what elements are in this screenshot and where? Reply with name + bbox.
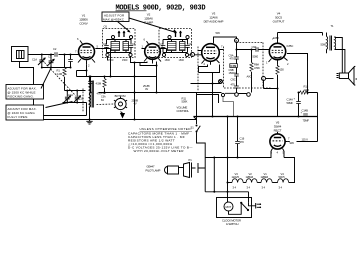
heater feed left [270,151,272,158]
wire antenna bottom down to bus [20,62,34,120]
svg-text:50MF: 50MF [287,101,294,105]
capacitor C16 line filter [237,117,239,158]
resistor R1 2.2M [63,68,66,77]
wire T1 to V2 grid [131,57,148,63]
V2 top pin stub [147,41,149,44]
V2 cathode wiring [135,62,157,120]
pilot lamp P1 [146,158,206,178]
oscillator trimmer feed line [65,90,86,92]
oscillator trimmer C1D [73,91,83,103]
filter resistor R13 [299,92,301,94]
main bus right [194,116,318,118]
socket bottom view [114,94,139,110]
V3 pin stubs [198,50,224,65]
svg-text:WITH 20,000Ω/-VOLT METER: WITH 20,000Ω/-VOLT METER [134,149,185,153]
svg-text:3 4: 3 4 [233,186,237,190]
svg-text:1500: 1500 [179,59,185,62]
tube label V2 [144,13,153,25]
socket ground key arrow [121,112,123,113]
svg-text:470K: 470K [254,66,260,70]
tube V2 [145,44,161,60]
svg-text:C14B: C14B [302,109,309,113]
svg-text:0.5M: 0.5M [231,64,237,68]
filament supply line [205,157,271,159]
oscillator coil T3 [89,81,93,120]
svg-text:C14A: C14A [287,98,294,102]
callout box: 1500KC [6,85,44,100]
svg-text:4.5M: 4.5M [96,82,102,86]
on-off switch S1 on volume [196,120,198,125]
svg-text:5000: 5000 [253,55,259,59]
svg-text:MOT: MOT [226,205,232,209]
svg-text:5000: 5000 [321,43,327,47]
heater V1 [261,179,272,183]
svg-text:105V: 105V [273,36,279,40]
gang link dashed [45,63,76,96]
tube V3 [202,44,220,62]
capacitor C4 input [68,60,73,62]
svg-text:2.2M: 2.2M [57,72,63,76]
riser [213,158,215,192]
svg-text:1500: 1500 [122,59,128,62]
IF transformer T1 can [103,29,136,63]
svg-text:C1A: C1A [32,58,37,62]
svg-text:150: 150 [280,68,285,72]
C14A [298,93,300,102]
svg-text:4V: 4V [134,102,137,106]
V3 cathode loop [199,65,220,73]
wire antenna to V1 grid [28,54,79,56]
wire V1 plate to T1 [100,49,110,77]
junction x134 at bus [134,119,136,121]
switch in box [240,202,249,211]
heater V3 [232,179,243,183]
svg-text:& SWITCH: & SWITCH [226,222,238,226]
svg-text:115 V: 115 V [302,138,309,142]
main bus left (B-) [34,119,197,121]
V5 plate wire to B+ [288,141,290,143]
volume control R11 [196,93,198,120]
output transformer T1 [321,24,345,73]
svg-text:50V: 50V [216,31,221,35]
svg-text:ROCKING GANG.: ROCKING GANG. [8,94,34,98]
svg-text:IF AMP: IF AMP [144,21,153,25]
detector column bottom ties [236,88,238,93]
svg-text:PILOT LAMP: PILOT LAMP [146,169,161,173]
heater feed right [284,151,295,183]
V4 screen to B+ [287,54,308,61]
svg-text:AVC: AVC [247,75,252,79]
loop antenna L1 [12,47,29,62]
AVC resistor column [247,50,261,93]
svg-text:4V: 4V [145,87,148,91]
vertical V3 to bus [212,73,214,117]
tube V5 [270,134,285,149]
lower distribution line [205,191,248,193]
callout box: 1620KC [6,105,44,120]
detector dashed shield [198,43,271,91]
speaker LS1 [337,66,358,85]
leader arrow to T1 slug [118,22,130,32]
svg-text:12BA6: 12BA6 [246,175,254,179]
svg-text:90V: 90V [290,141,295,145]
svg-text:OUTPUT: OUTPUT [273,20,285,24]
AVC line back [191,83,223,85]
leader arrow to T2 slug [129,18,175,32]
svg-text:FULLY OPEN.: FULLY OPEN. [8,115,29,119]
svg-text:3 4: 3 4 [279,186,283,190]
cathode resistor cluster V1 [88,77,106,96]
svg-text:15000: 15000 [229,71,237,75]
V5 label [274,121,282,133]
oscillator trimmer C1C [64,91,74,103]
svg-text:CONV: CONV [79,22,87,26]
V4 pins [269,33,288,65]
svg-text:12AV6: 12AV6 [232,175,240,179]
B+ node vertical x307 [307,54,309,93]
IF transformer T2 can [159,29,192,63]
input node bus [42,67,65,69]
coupling cap C10 [256,47,258,52]
svg-text:1500: 1500 [108,59,114,62]
heater bus [227,182,232,184]
V4 cathode resistor [277,64,279,66]
trimmer bottom line [63,103,87,116]
ground osc [86,120,92,125]
svg-text:12AV6: 12AV6 [209,16,218,20]
tube label V4 [273,12,285,24]
svg-text:50C5: 50C5 [279,175,286,179]
V1 cathode wiring [77,64,87,76]
AGC line [99,92,135,94]
wire bus to clock motor [227,117,229,203]
svg-text:CONTROL: CONTROL [177,109,190,113]
gang capacitor C1A [32,54,46,68]
plate wire V3 50V line [214,37,237,86]
svg-text:75MF: 75MF [303,119,310,123]
tube V1 [79,44,95,60]
svg-text:MAX.@455KC: MAX.@455KC [103,17,125,21]
V2 pin stubs [142,49,164,64]
V4 cathode to bus [264,81,278,118]
V5 pins [271,132,288,151]
gang capacitor C3 [47,54,55,68]
svg-text:C90: C90 [252,45,257,49]
heater V2 [246,179,257,183]
svg-text:500K: 500K [182,100,188,104]
wire T2 to V3 grid [189,54,202,56]
svg-text:470: 470 [240,140,245,144]
V1 top pin stub [80,41,83,45]
V4 tube [269,43,285,59]
leaders from callouts [41,67,73,108]
heater V4 [278,179,289,183]
svg-text:1200: 1200 [304,88,310,92]
svg-text:B: B [236,39,238,43]
motor bottom wire [229,203,242,215]
detector network column C9 [229,54,239,89]
svg-text:MODELS 900D, 902D, 903D: MODELS 900D, 902D, 903D [116,5,206,13]
switch to lamp feed [197,133,206,192]
wire x156 down [156,66,158,93]
tube label V1 [79,14,88,26]
svg-text:DET-AUDIO AMP: DET-AUDIO AMP [204,20,224,24]
tie point B [235,39,239,43]
svg-text:3 4: 3 4 [262,186,266,190]
svg-text:12BE6: 12BE6 [261,175,269,179]
bus segment osc [39,115,87,117]
svg-text:3 4: 3 4 [247,186,251,190]
svg-text:R13: R13 [304,85,309,89]
clock motor box [217,198,252,227]
svg-text:R8A: R8A [254,63,259,67]
osc coil top wire [89,77,91,81]
tube label V3 [204,12,224,24]
notes block [128,127,193,153]
svg-text:0.85C: 0.85C [287,44,294,48]
power plug [249,203,262,209]
svg-text:470: 470 [230,57,235,61]
callout box: ADJUST FOR MAX @455KC [102,12,129,22]
svg-text:C16: C16 [240,137,245,141]
plate line 105V to T1 [278,33,323,36]
svg-text:GE#47: GE#47 [147,165,155,169]
switch feed [248,192,250,203]
svg-text:CLOCK MOTOR: CLOCK MOTOR [222,219,241,223]
wire V2 plate to T2 [161,49,167,53]
svg-text:1500: 1500 [165,59,171,62]
V1 pin stubs [78,49,100,65]
AVC line [77,76,157,78]
svg-text:VOLUME: VOLUME [177,106,188,110]
svg-text:C9C: C9C [231,78,236,82]
